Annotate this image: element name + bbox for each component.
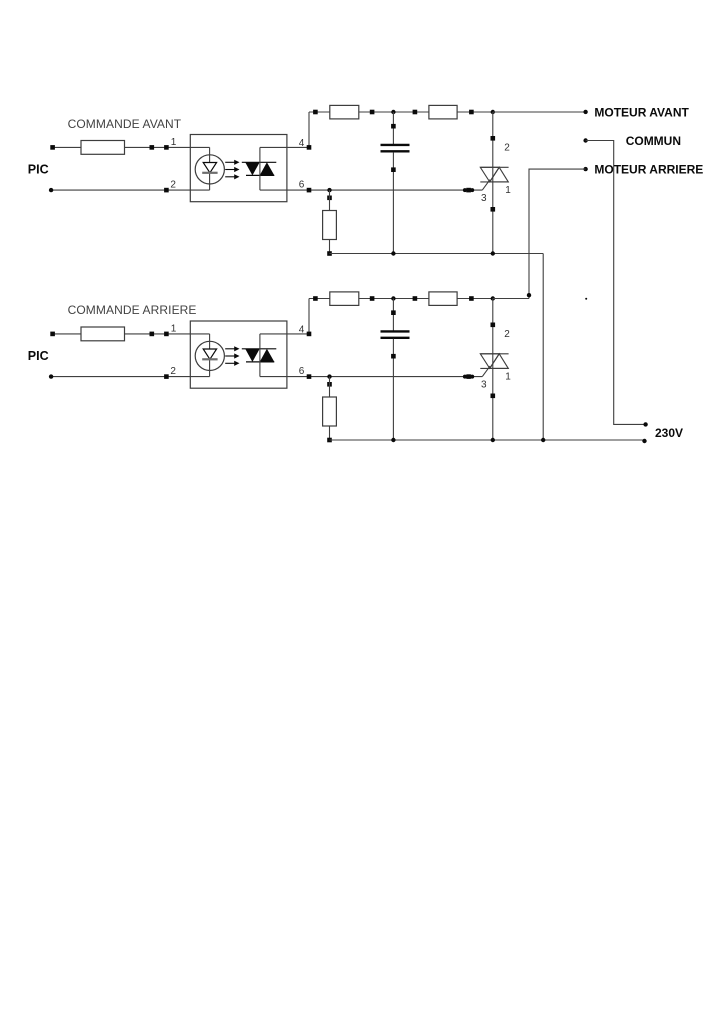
triac T2 gate diagonal: [482, 366, 490, 377]
junction dot bottom rail 2 cap: [391, 438, 395, 442]
wire-end square rail 2 right: [469, 296, 474, 301]
wire-end square rail 2 left: [313, 296, 318, 301]
wire COMMUN to 230V phase: [586, 141, 646, 425]
terminal square PIC2 pin1: [50, 332, 55, 337]
terminal dot COMMUN: [583, 138, 587, 142]
svg-text:1: 1: [505, 185, 511, 196]
wire-end square rail 2 before R2c: [413, 296, 418, 301]
wire R1a to opto U1 pin1: [125, 146, 210, 148]
junction dot rail 1 triac branch: [491, 110, 495, 114]
svg-text:MOTEUR ARRIERE: MOTEUR ARRIERE: [594, 162, 703, 176]
triac T2 right triangle: [490, 354, 509, 369]
wire MOTEUR ARRIERE down to rail2: [529, 169, 586, 298]
junction dot MOTEUR ARRIERE at rail2: [527, 293, 531, 297]
corner square U2 pin4: [307, 332, 312, 337]
junction dot bottom rail 1 cap: [391, 251, 395, 255]
junction dot rail 1 capacitor tap: [391, 110, 395, 114]
resistor R2a (input series): [81, 327, 125, 341]
wire R1d top lead: [329, 190, 331, 210]
terminal dot MOTEUR AVANT: [583, 110, 587, 114]
svg-text:2: 2: [504, 329, 510, 340]
wire-end square bottom rail 1 left: [327, 251, 332, 256]
wire-end square T2 anode2: [491, 323, 496, 328]
corner square U1 pin4: [307, 145, 312, 150]
gate node dot a 1: [463, 188, 467, 192]
svg-text:2: 2: [170, 366, 176, 377]
U1 LED cathode bar: [202, 172, 217, 174]
U1 phototriac right triangle: [260, 162, 275, 175]
U1 LED circle: [195, 155, 224, 184]
wire-end square net1-1: [150, 145, 155, 150]
wire cap C1 top lead: [392, 112, 394, 144]
rail wire 2 corner to R2b: [309, 298, 330, 300]
wire cap C2 bottom lead: [392, 339, 394, 440]
wire-end square at U2 pin2: [164, 374, 169, 379]
gate node square 1: [466, 188, 471, 193]
wire U2 pin6 to T2 gate: [260, 376, 482, 378]
triac T1 top bar: [480, 166, 508, 168]
junction dot gate resistor tap 2: [327, 374, 331, 378]
wire-end square at U1 pin2: [164, 188, 169, 193]
wire PIC1 to R1a: [53, 146, 81, 148]
U1 phototriac bottom bar: [246, 174, 274, 176]
wire-end square C1 top: [391, 124, 396, 129]
stray mark near rail2: [585, 298, 587, 300]
svg-text:6: 6: [299, 366, 305, 377]
wire rail2 extension to MOTEUR ARRIERE drop: [493, 298, 529, 300]
wire-end square rail 1 after R1b: [370, 110, 375, 115]
wire U1 pin6 to T1 gate: [260, 189, 482, 191]
wire-end square T1 anode1: [491, 207, 496, 212]
U1 LED diode triangle: [203, 163, 216, 173]
U1 LED branch vertical: [209, 147, 211, 190]
optocoupler U1 body: [190, 135, 287, 202]
wire-end square pin6 1: [307, 188, 312, 193]
junction dot rail 2 triac branch: [491, 296, 495, 300]
svg-text:PIC: PIC: [28, 163, 49, 177]
svg-text:1: 1: [171, 323, 177, 334]
triac T1 left triangle: [480, 167, 499, 182]
triac T2 left triangle: [480, 354, 499, 369]
wire-end square R1d top: [327, 196, 332, 201]
resistor R1c (snubber series 2): [429, 105, 457, 119]
resistor R1d (gate pulldown): [323, 211, 337, 240]
terminal dot MOTEUR ARRIERE: [583, 167, 587, 171]
U2 LED circle: [195, 341, 224, 370]
wire cap C2 top lead: [392, 299, 394, 331]
wire-end square at U1 pin1: [164, 145, 169, 150]
U1 light arrow 3: [225, 176, 236, 178]
resistor R1b (snubber series 1): [330, 105, 359, 119]
gate node dot b 1: [470, 188, 474, 192]
svg-text:COMMANDE AVANT: COMMANDE AVANT: [68, 117, 182, 131]
capacitor C1 bottom plate: [381, 150, 410, 152]
wire-end square C2 bottom: [391, 354, 396, 359]
wire-end square C1 bottom: [391, 167, 396, 172]
rail wire 1 R1b to R1c: [359, 111, 429, 113]
optocoupler U2 body: [190, 321, 287, 388]
U1 light arrow 2: [225, 169, 236, 171]
wire rail1 to MOTEUR AVANT terminal: [493, 111, 586, 113]
svg-text:4: 4: [299, 324, 305, 335]
svg-text:MOTEUR AVANT: MOTEUR AVANT: [594, 105, 689, 119]
wire U1 pin4 up to snubber rail: [260, 112, 309, 147]
U1 phototriac branch vertical: [259, 147, 261, 190]
svg-text:6: 6: [299, 180, 305, 191]
rail wire 2 R2b to R2c: [359, 298, 429, 300]
wire-end square rail 1 right: [469, 110, 474, 115]
bottom rail wire 2: [330, 439, 645, 441]
wire PIC1 return to U1 pin2: [51, 189, 210, 191]
capacitor C2 top plate: [381, 330, 410, 332]
resistor R2b (snubber series 1): [330, 292, 359, 306]
wire-end square rail 2 after R2b: [370, 296, 375, 301]
U2 phototriac branch vertical: [259, 334, 261, 377]
junction dot rail 2 capacitor tap: [391, 296, 395, 300]
rail wire 1 corner to R1b: [309, 111, 330, 113]
svg-text:COMMUN: COMMUN: [626, 134, 681, 148]
svg-text:4: 4: [299, 138, 305, 149]
wire R2d bottom lead: [329, 426, 331, 440]
svg-text:1: 1: [505, 371, 511, 382]
triac T2 bottom bar: [480, 367, 508, 369]
junction dot bottom rail 2 triac: [491, 438, 495, 442]
terminal dot 230V neutral: [642, 439, 646, 443]
U2 light arrow 3: [225, 362, 236, 364]
U2 phototriac top bar: [242, 348, 276, 350]
wire triac T1 vertical main: [492, 112, 494, 254]
U1 phototriac top bar: [242, 161, 276, 163]
junction dot neutral rails: [541, 438, 545, 442]
resistor R2c (snubber series 2): [429, 292, 457, 306]
junction dot gate resistor tap 1: [327, 188, 331, 192]
wire-end square R2d top: [327, 382, 332, 387]
wire R1d bottom lead: [329, 240, 331, 254]
U2 LED diode triangle: [203, 349, 216, 359]
U2 LED branch vertical: [209, 334, 211, 377]
terminal dot PIC2 pin2: [49, 374, 53, 378]
wire-end square bottom rail 2 left: [327, 438, 332, 443]
wire-end square C2 top: [391, 310, 396, 315]
svg-text:3: 3: [481, 380, 487, 391]
rail wire 2 R2c to triac T2: [457, 298, 493, 300]
wire bottom rail1 down to 230V neutral: [542, 254, 544, 441]
wire PIC2 to R2a: [53, 333, 81, 335]
svg-text:2: 2: [170, 180, 176, 191]
capacitor C1 top plate: [381, 144, 410, 146]
wire-end square net1-2: [150, 332, 155, 337]
capacitor C2 bottom plate: [381, 337, 410, 339]
U2 light arrow 1: [225, 348, 236, 350]
svg-text:COMMANDE ARRIERE: COMMANDE ARRIERE: [68, 303, 197, 317]
U2 phototriac bottom bar: [246, 361, 274, 363]
U2 LED cathode bar: [202, 358, 217, 360]
U2 light arrow 2: [225, 355, 236, 357]
U2 phototriac right triangle: [260, 349, 275, 362]
terminal dot PIC1 pin2: [49, 188, 53, 192]
triac T1 gate diagonal: [482, 180, 490, 191]
gate node square 2: [466, 374, 471, 379]
gate node dot a 2: [463, 375, 467, 379]
svg-text:230V: 230V: [655, 426, 683, 440]
wire-end square rail 1 before R1c: [413, 110, 418, 115]
svg-text:3: 3: [481, 193, 487, 204]
wire U2 pin4 up to snubber rail: [260, 299, 309, 334]
junction dot bottom rail 1 triac: [491, 251, 495, 255]
U1 light arrow 1: [225, 161, 236, 163]
gate node dot b 2: [470, 375, 474, 379]
resistor R1a (input series): [81, 141, 125, 155]
bottom rail wire 1: [330, 253, 544, 255]
triac T1 bottom bar: [480, 181, 508, 183]
rail wire 1 R1c to triac T1: [457, 111, 493, 113]
wire PIC2 return to U2 pin2: [51, 376, 210, 378]
wire-end square rail 1 left: [313, 110, 318, 115]
wire-end square at U2 pin1: [164, 332, 169, 337]
wire-end square T2 anode1: [491, 394, 496, 399]
resistor R2d (gate pulldown): [323, 397, 337, 426]
svg-text:1: 1: [171, 137, 177, 148]
svg-text:PIC: PIC: [28, 349, 49, 363]
wire triac T2 vertical main: [492, 299, 494, 441]
U2 phototriac left triangle: [245, 349, 260, 362]
wire-end square T1 anode2: [491, 136, 496, 141]
wire cap C1 bottom lead: [392, 152, 394, 253]
U1 phototriac left triangle: [245, 162, 260, 175]
terminal dot 230V phase: [643, 422, 647, 426]
triac T1 right triangle: [490, 167, 509, 182]
svg-text:2: 2: [504, 143, 510, 154]
triac T2 top bar: [480, 353, 508, 355]
wire R2a to opto U2 pin1: [125, 333, 210, 335]
wire-end square pin6 2: [307, 374, 312, 379]
wire R2d top lead: [329, 377, 331, 397]
terminal square PIC1 pin1: [50, 145, 55, 150]
